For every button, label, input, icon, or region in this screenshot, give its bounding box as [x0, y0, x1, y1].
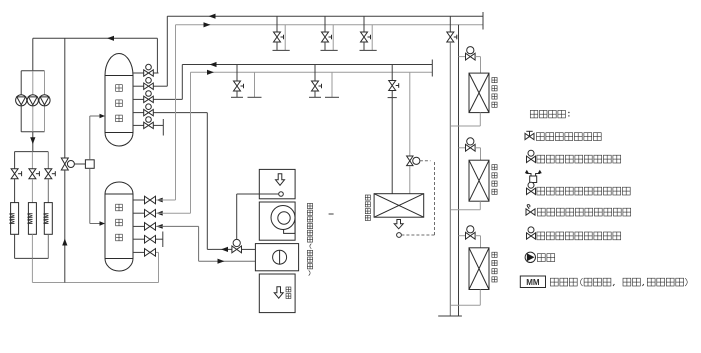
electric pressure differential bypass valve	[61, 158, 68, 170]
main equipment MM 1 (chiller/boiler)	[11, 203, 19, 235]
fan scroll	[271, 206, 295, 234]
wire bypass riser lower	[64, 170, 66, 283]
dynamic balancing electric control valve on outlet 2	[144, 83, 154, 89]
pump P3	[39, 95, 50, 106]
wire pump discharge	[32, 132, 34, 152]
label 风机盘管 2	[492, 165, 497, 170]
AHU section 1 (return air)	[259, 169, 295, 198]
wire conn1 to riser	[156, 199, 175, 201]
legend text 水泵	[537, 254, 545, 262]
wire pump branch 3 lower	[44, 106, 46, 132]
wire AHU return pipe left	[212, 248, 232, 250]
water distributor vessel (bottom)	[105, 182, 133, 271]
wire pump branch 1 lower	[20, 106, 22, 132]
dynamic balance electric two-way valve FCU3	[466, 232, 476, 239]
legend icon bypass controller arrows and box	[527, 172, 540, 183]
control line dashed vertical	[434, 161, 436, 235]
legend text 动态平衡电动二通阀	[537, 232, 545, 240]
svg-text:MM: MM	[43, 213, 50, 225]
cap bar C-drop 1	[231, 96, 243, 98]
control line AHU sensor vertical	[236, 194, 238, 239]
wire FCU3 supply stub	[459, 235, 466, 237]
main equipment MM 2 (chiller/boiler)	[28, 203, 36, 235]
wire fresh air return riser lower	[391, 91, 393, 194]
tick bar on fresh air return	[388, 97, 397, 99]
wire D-drop 1	[254, 72, 256, 97]
label 空气处理机组(空调箱)	[307, 203, 312, 208]
legend icon dynamic balance electric two-way valve	[527, 233, 536, 239]
wire return header line C	[182, 64, 432, 66]
wire outlet4 riser down to AHU	[206, 113, 208, 250]
svg-text:MM: MM	[10, 213, 17, 225]
wire outlet4 to riser	[154, 112, 208, 114]
wire top vessel outlet 3 stub	[133, 98, 144, 100]
arrow into collector conn3	[156, 224, 163, 229]
legend MM box	[520, 276, 545, 288]
wire AHU supply pipe	[199, 260, 256, 262]
dash mark right of AHU label	[329, 213, 334, 215]
wire conn2 riser to line D	[190, 72, 192, 213]
wire FCU2 supply down	[480, 148, 482, 160]
pump P2	[27, 95, 38, 106]
wire top vessel outlet 4 stub	[133, 112, 144, 114]
wire conn5 drop	[158, 252, 160, 282]
shutoff valve on bottom vessel connection 5	[145, 249, 156, 257]
wire fresh air return riser upper	[391, 65, 393, 81]
wire AHU return pipe right	[242, 248, 256, 250]
wire FCU3 return horizontal	[450, 304, 480, 306]
fixed dynamic flow balance valve on A-drop 1	[274, 32, 281, 42]
cap bar outlet5	[162, 119, 164, 136]
legend icon water pump	[525, 252, 535, 262]
label 新风机组	[365, 195, 370, 200]
legend title 图标说明	[530, 110, 538, 118]
wire B-drop 3	[371, 25, 373, 51]
cap bar D-drop 2	[325, 96, 339, 98]
static balancing valve on chiller branch 2	[29, 169, 36, 179]
wire A-drop 1 lower	[276, 42, 278, 50]
arrow flow down pump discharge	[30, 137, 35, 144]
wire bypass riser upper	[64, 38, 66, 158]
fixed dynamic flow balance valve on A-drop 3	[361, 32, 368, 42]
arrow flow right line D	[207, 70, 214, 75]
wire supply header line B	[176, 24, 484, 26]
fan coil unit FCU2	[469, 160, 489, 201]
dynamic balancing electric control valve AHU	[232, 246, 242, 253]
label 风机盘管 3	[492, 252, 497, 257]
wire conn3 drop	[198, 226, 200, 261]
wire FCU1 return down	[479, 113, 481, 126]
wire conn1 riser to line B	[175, 25, 177, 200]
legend icon static balancing valve	[525, 133, 534, 139]
dynamic balancing electric control valve on outlet 5	[144, 122, 154, 128]
wire A-drop 3 lower	[363, 42, 365, 50]
wire chiller branch 3 upper	[47, 152, 49, 169]
pressure differential controller box	[85, 160, 94, 169]
coil symbol circle with bar	[273, 250, 287, 264]
main equipment MM 3 (chiller/boiler)	[44, 203, 52, 235]
fresh air handling unit box	[374, 194, 424, 218]
svg-text:MM: MM	[27, 213, 34, 225]
cap bar branch pair 1	[273, 49, 290, 51]
dynamic balance electric two-way valve on fresh air supply	[407, 156, 413, 166]
wire chiller return join	[15, 257, 49, 259]
arrow into bottom vessel	[100, 221, 106, 225]
fixed dynamic flow balance valve on C-drop 2	[312, 81, 319, 91]
dynamic balancing electric control valve on outlet 4	[144, 109, 154, 115]
wire pressure tap to collector	[89, 168, 91, 223]
arrow flow right line B	[204, 22, 211, 27]
wire fresh air supply riser lower	[409, 166, 411, 194]
wire C-drop 1 upper	[236, 65, 238, 82]
shutoff valve on bottom vessel connection 1	[145, 196, 156, 204]
wire chiller return drop	[31, 258, 33, 282]
control line dashed horizontal	[401, 234, 434, 236]
wire bottom return line to collector	[32, 282, 158, 284]
wire outlet3 riser to line C	[181, 65, 183, 100]
static balancing valve on return riser	[447, 32, 454, 42]
wire D-drop 2	[331, 72, 333, 97]
wire FCU1 supply stub right	[475, 56, 480, 58]
wire conn3 horizontal	[156, 225, 198, 227]
legend text 静态水力平衡阀	[536, 133, 544, 141]
wire pump branch 1 upper	[20, 71, 22, 95]
wire pump suction header	[33, 37, 158, 39]
shutoff valve on bottom vessel connection 2	[145, 209, 156, 217]
wire C-drop 2 lower	[314, 91, 316, 97]
wire chiller 2 outlet	[31, 234, 33, 258]
wire outlet2 to riser	[154, 85, 168, 87]
temperature sensor fresh air	[397, 233, 402, 238]
wire pressure tap lower horizontal	[90, 223, 102, 225]
wire chiller branch 1 upper	[14, 152, 16, 169]
water collector vessel (top)	[105, 54, 133, 146]
label bottom vessel 分水器	[116, 204, 123, 211]
cap bar branch pair 2	[321, 49, 338, 51]
wire pump group inlet	[32, 38, 34, 71]
label 风机盘管 1	[492, 78, 497, 83]
cap bar headers A and B	[482, 12, 484, 30]
label 送风	[286, 287, 291, 292]
wire bottom vessel connection 2 stub	[133, 212, 144, 214]
wire bottom vessel connection 3 stub	[133, 225, 144, 227]
wire conn4 stub	[156, 238, 163, 240]
wire A-drop 2 lower	[324, 42, 326, 50]
wire B-drop 1	[284, 25, 286, 51]
legend icon electric bypass valve	[527, 188, 536, 194]
wire chiller branch 2 upper	[31, 152, 33, 169]
legend text 动态平衡电动调节阀	[537, 155, 545, 163]
fan coil unit FCU1	[469, 73, 489, 113]
dynamic balancing electric control valve on outlet 1	[144, 70, 154, 76]
wire conn2 to riser	[156, 212, 190, 214]
label top vessel 分水器	[116, 85, 123, 92]
return air arrow	[276, 174, 285, 186]
cap bar branch pair 3	[360, 49, 377, 51]
wire pump branch 3 upper	[44, 71, 46, 95]
pump P1	[16, 95, 27, 106]
cap bar headers C and D	[431, 60, 433, 77]
wire FCU2 return horizontal	[450, 209, 480, 211]
wire B-drop 2	[332, 25, 334, 51]
arrow flow left line A	[209, 14, 216, 19]
wire chiller 3 outlet	[47, 234, 49, 258]
wire pump top manifold	[21, 70, 44, 72]
legend icon dynamic balancing electric control valve	[527, 156, 536, 162]
arrow flow up bypass riser	[62, 239, 67, 246]
wire FCU3 return down	[479, 290, 481, 306]
wire C-drop 1 lower	[236, 91, 238, 97]
fan coil unit FCU3	[469, 248, 489, 290]
wire chiller branch 3 lower	[47, 179, 49, 203]
wire pressure tap to distributor	[89, 116, 91, 160]
wire pump branch 2 upper	[32, 71, 34, 95]
wire A-drop 1 upper	[276, 16, 278, 32]
supply air arrow below fresh air unit	[394, 220, 403, 229]
wire pump branch 2 lower	[32, 106, 34, 132]
wire C-drop 2 upper	[314, 65, 316, 82]
wire FCU1 return horizontal	[450, 125, 480, 127]
cap bar conn4	[162, 232, 164, 248]
shutoff valve on bottom vessel connection 3	[145, 223, 156, 231]
control line dashed to valve	[420, 160, 431, 162]
wire supply header line D	[191, 71, 433, 73]
fixed dynamic flow balance valve on C-drop 1	[234, 81, 241, 91]
cap bar C-drop 2	[309, 96, 321, 98]
cap bar risers bottom	[438, 315, 462, 317]
AHU section 3 (coil box)	[255, 244, 298, 271]
control line AHU sensor horizontal	[237, 193, 279, 195]
wire FCU1 supply down	[480, 57, 482, 74]
supply air arrow AHU	[274, 287, 283, 299]
wire outlet5 stub	[154, 124, 164, 126]
wire chiller branch 2 lower	[31, 179, 33, 203]
wire FCU2 supply stub right	[475, 147, 480, 149]
wire fresh air supply riser upper	[409, 72, 411, 155]
wire chiller supply manifold	[15, 151, 49, 153]
legend text 固定式动态流量平衡阀	[537, 208, 545, 216]
static balancing valve on chiller branch 3	[45, 169, 52, 179]
dynamic balancing electric control valve on outlet 3	[144, 96, 154, 102]
wire AHU return corner	[207, 248, 212, 250]
svg-text:MM: MM	[526, 278, 540, 287]
wire chiller branch 1 lower	[14, 179, 16, 203]
wire top vessel outlet 2 stub	[133, 85, 144, 87]
wire top vessel outlet 1 stub	[133, 72, 144, 74]
arrow into collector conn2	[156, 211, 163, 216]
arrow flow right AHU supply	[218, 259, 225, 264]
wire conn5 stub	[156, 251, 159, 253]
wire bottom vessel connection 4 stub	[133, 238, 144, 240]
wire bottom vessel connection 1 stub	[133, 199, 144, 201]
wire top vessel outlet 5 stub	[133, 124, 144, 126]
wire return riser	[449, 42, 451, 316]
wire A-drop 2 upper	[324, 16, 326, 32]
wire outlet1 riser	[156, 38, 158, 73]
legend text 电动压差旁通控制系统	[537, 187, 545, 195]
wire outlet1 to riser	[154, 72, 159, 74]
cap bar D-drop 1	[248, 96, 262, 98]
arrow flow left line C	[210, 62, 217, 67]
wire FCU3 supply down	[480, 236, 482, 248]
wire return header line A	[167, 15, 483, 17]
wire supply riser	[458, 25, 460, 316]
wire A-drop 3 upper	[363, 16, 365, 32]
arrow into top vessel	[100, 114, 106, 118]
dynamic balance electric two-way valve FCU1	[466, 53, 476, 60]
dynamic balance electric two-way valve FCU2	[466, 144, 476, 151]
wire pressure tap upper horizontal	[90, 115, 102, 117]
legend text 主设备	[550, 278, 558, 286]
wire FCU3 supply stub right	[475, 235, 480, 237]
wire FCU1 supply stub	[459, 56, 466, 58]
wire bottom vessel connection 5 stub	[133, 251, 144, 253]
shutoff valve on bottom vessel connection 4	[145, 235, 156, 243]
wire outlet3 to riser	[154, 98, 183, 100]
wire FCU2 supply stub	[459, 147, 466, 149]
wire pump bottom manifold	[21, 131, 44, 133]
arrow flow left AHU return	[221, 247, 228, 252]
static balancing valve on fresh air return	[389, 81, 396, 91]
legend icon fixed dynamic flow balance valve	[526, 209, 535, 215]
AHU section 2 (fan)	[259, 202, 295, 240]
wire bypass valve to controller	[74, 163, 85, 165]
AHU section 4 (supply air)	[259, 274, 295, 313]
arrow flow left on pump suction header	[107, 36, 114, 41]
arrow into collector conn1	[156, 198, 163, 203]
wire chiller 1 outlet	[14, 234, 16, 258]
fixed dynamic flow balance valve on A-drop 2	[322, 32, 329, 42]
static balancing valve on chiller branch 1	[11, 169, 18, 179]
wire return riser top	[449, 16, 451, 32]
wire FCU2 return down	[479, 201, 481, 210]
wire outlet2 riser to line A	[166, 16, 168, 86]
AHU temperature sensor	[279, 192, 284, 197]
